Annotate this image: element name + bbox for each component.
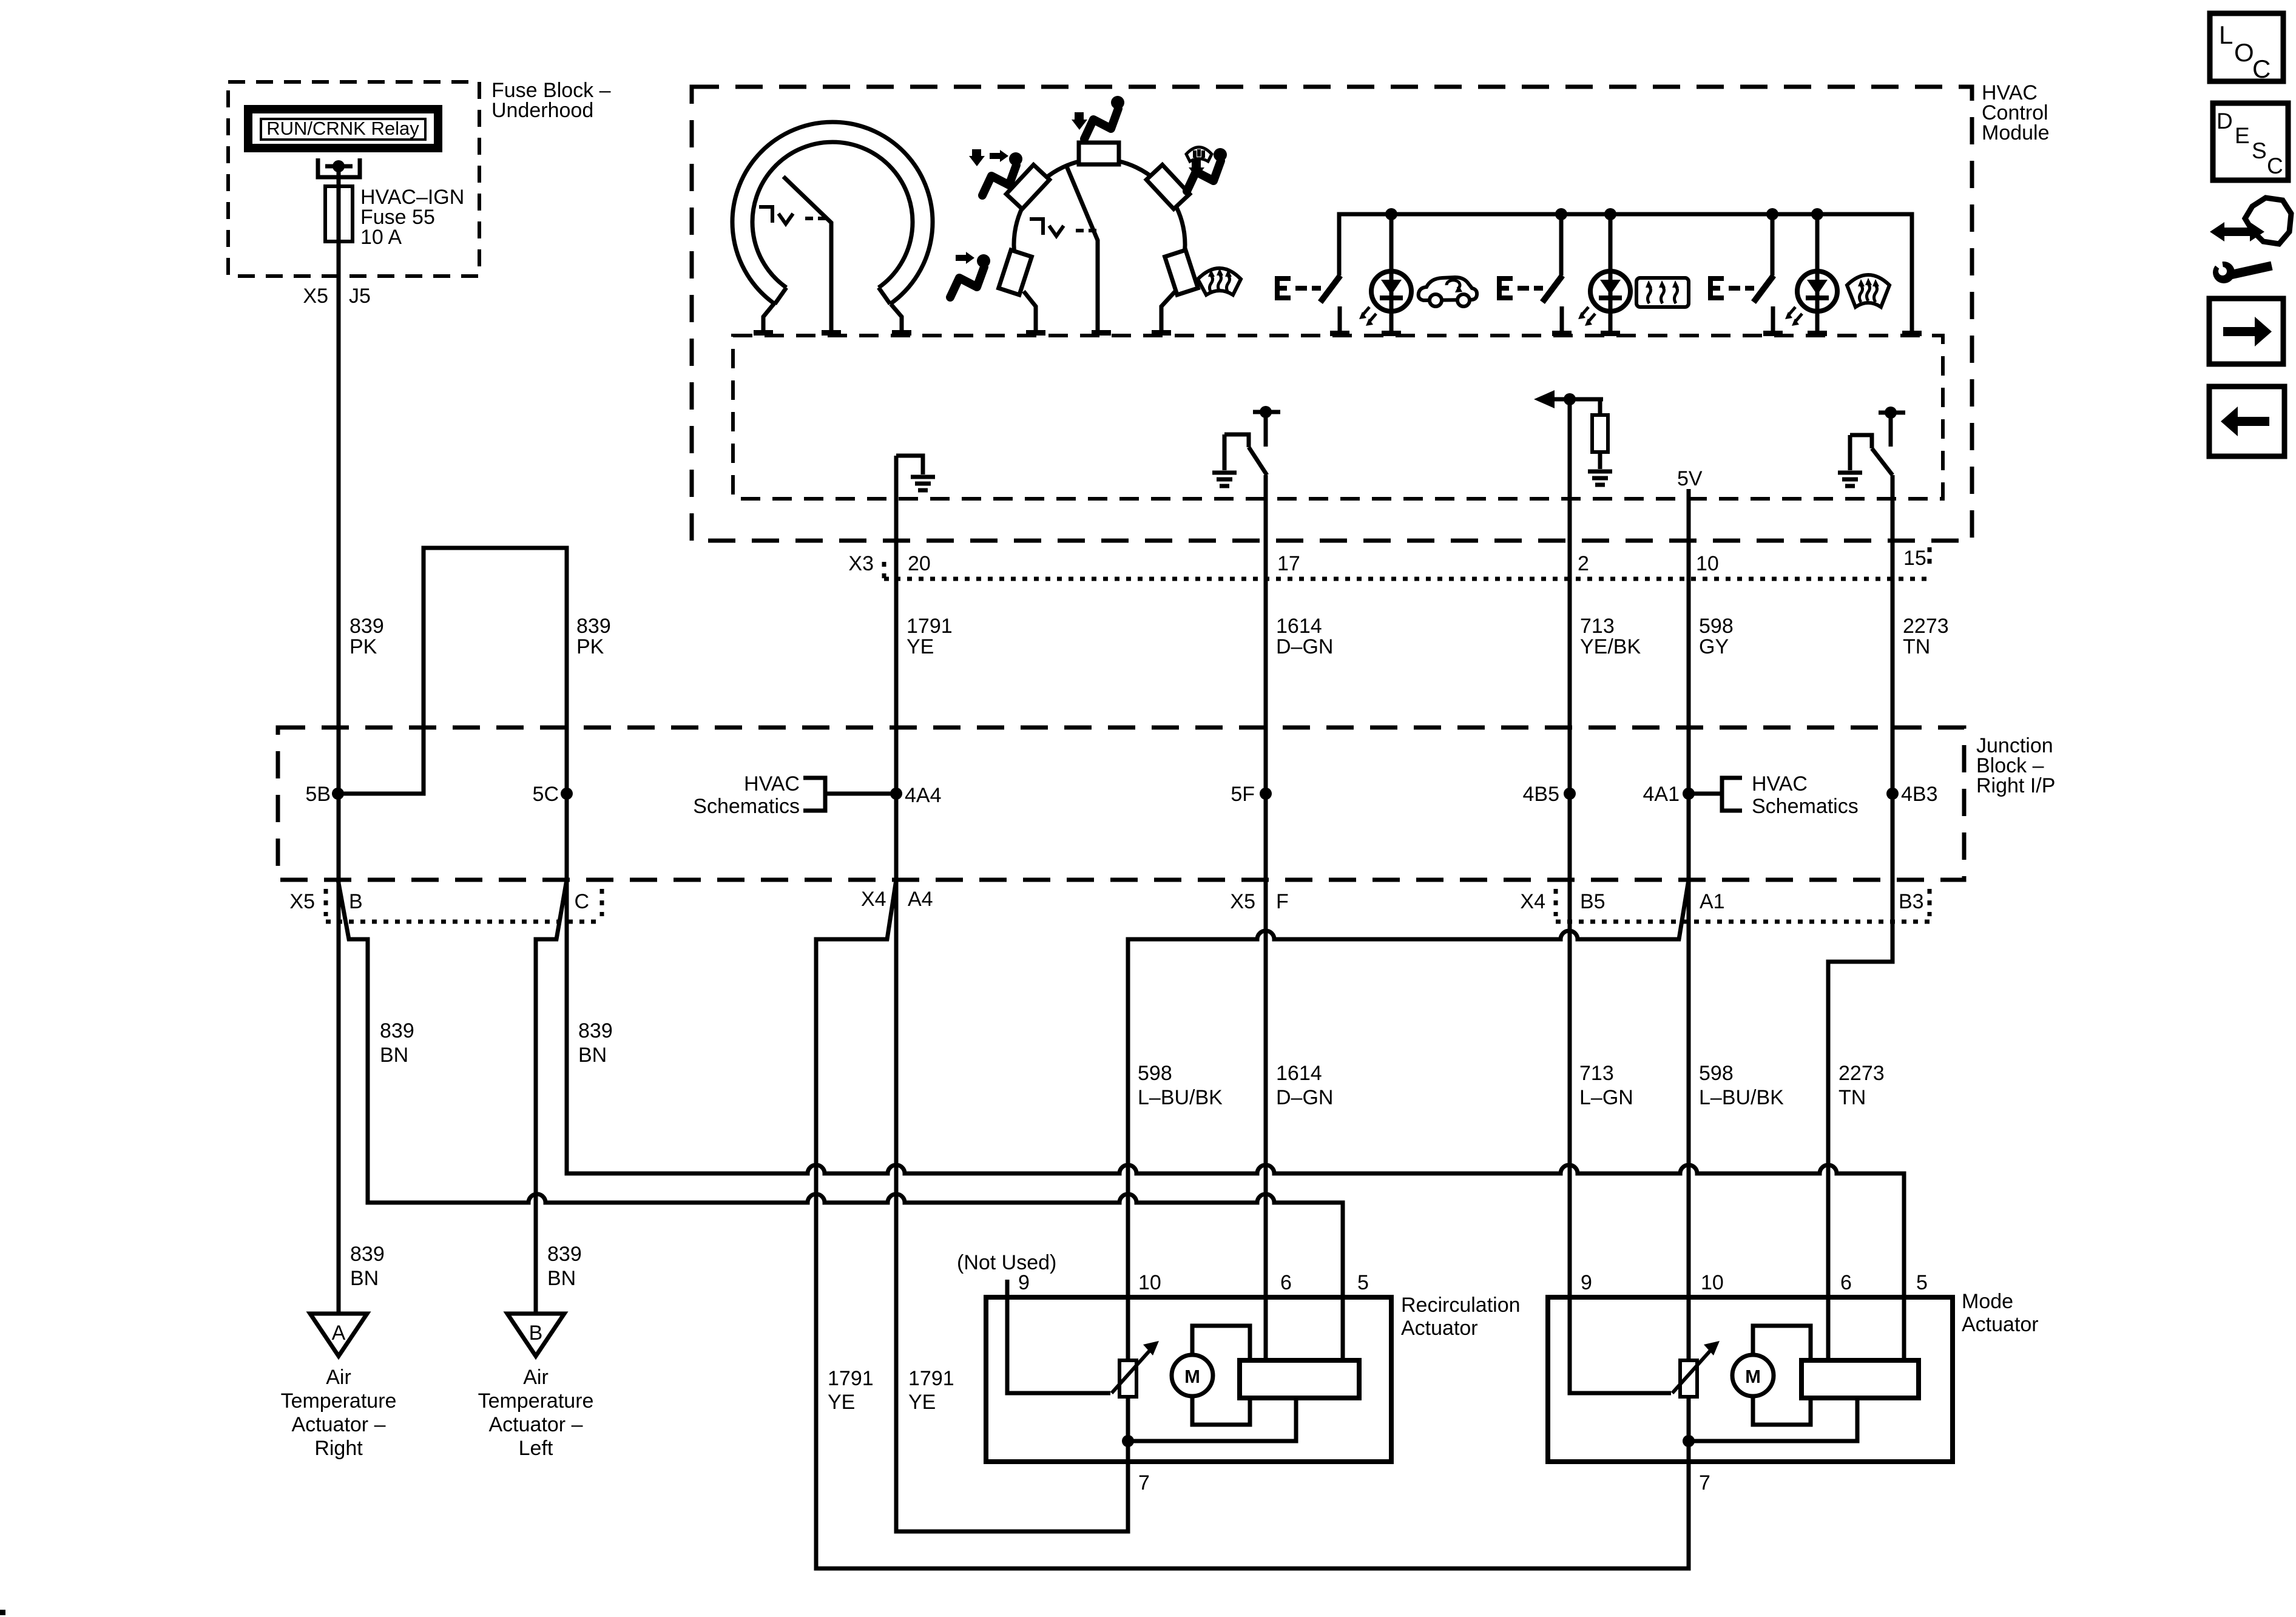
svg-text:839: 839 xyxy=(578,1019,613,1042)
svg-text:YE: YE xyxy=(828,1391,855,1414)
wire fuse feed (runs from relay dot down to Air Temp Actuator A) xyxy=(337,166,341,1314)
fuse F55 HVAC-IGN 10A xyxy=(325,186,353,241)
switch S3 front defog button xyxy=(1708,214,1783,336)
svg-text:Schematics: Schematics xyxy=(693,795,800,818)
svg-text:M: M xyxy=(1745,1366,1761,1387)
svg-text:F: F xyxy=(1276,890,1289,913)
temp knob left leg xyxy=(763,303,774,330)
svg-text:YE: YE xyxy=(908,1391,936,1414)
svg-text:BN: BN xyxy=(547,1267,576,1290)
LED D3 front defog indicator xyxy=(1785,214,1837,336)
svg-text:10: 10 xyxy=(1696,552,1719,575)
svg-text:X5: X5 xyxy=(303,285,328,308)
ground (pin 2 resistor) xyxy=(1588,471,1612,485)
svg-text:YE/BK: YE/BK xyxy=(1580,635,1641,658)
mode detent rect upper-right xyxy=(1146,165,1189,209)
svg-text:839: 839 xyxy=(576,615,611,638)
svg-text:X5: X5 xyxy=(289,890,315,913)
LED D2 rear defog indicator xyxy=(1578,214,1630,336)
LED D1 recirculation indicator xyxy=(1359,214,1411,336)
junction dot switch2 xyxy=(1555,208,1567,220)
icon defrost lower-right xyxy=(1198,268,1241,295)
svg-text:YE: YE xyxy=(907,635,934,658)
svg-text:X3: X3 xyxy=(848,552,874,575)
svg-text:Actuator: Actuator xyxy=(1962,1313,2039,1336)
svg-text:1791: 1791 xyxy=(828,1367,874,1390)
next page arrow button xyxy=(2209,299,2283,364)
relay output T-bar xyxy=(325,164,353,169)
wire 839 BN jog from C to mode pin 5 feed xyxy=(567,880,1904,1360)
svg-text:598: 598 xyxy=(1699,1062,1734,1085)
node 4A1 xyxy=(1683,788,1695,800)
switch S1 recirculation button xyxy=(1275,275,1349,336)
svg-text:Temperature: Temperature xyxy=(478,1389,594,1413)
svg-text:713: 713 xyxy=(1579,1062,1614,1085)
connector dotted lines xyxy=(326,920,602,924)
svg-text:C: C xyxy=(574,890,589,913)
svg-text:Air: Air xyxy=(523,1366,549,1389)
previous page arrow button xyxy=(2209,387,2284,456)
svg-text:5C: 5C xyxy=(533,783,559,806)
svg-text:20: 20 xyxy=(908,552,931,575)
wire 598 L-BU/BK from A1 to recirculation pin 10 xyxy=(1128,880,1689,1360)
temp knob wiper contact glyph xyxy=(759,207,826,224)
svg-text:B3: B3 xyxy=(1899,890,1924,913)
motor M recirculation xyxy=(1192,1326,1250,1425)
svg-text:BN: BN xyxy=(380,1044,408,1067)
junction dot relay output xyxy=(333,160,345,172)
node 4B3 xyxy=(1886,788,1899,800)
connector X3 dotted line xyxy=(884,577,1930,581)
icon person lower-left (vent) xyxy=(950,252,990,297)
svg-text:4B5: 4B5 xyxy=(1523,783,1560,806)
svg-text:A4: A4 xyxy=(908,888,933,911)
wire pin 2 to mode pin 9 (713) xyxy=(1570,399,1671,1393)
svg-text:598: 598 xyxy=(1138,1062,1172,1085)
svg-text:Underhood: Underhood xyxy=(491,99,593,122)
mode selector arc xyxy=(1014,159,1185,271)
svg-text:L–BU/BK: L–BU/BK xyxy=(1138,1086,1223,1109)
temp knob wiper diagonal and middle leg xyxy=(783,177,831,330)
svg-text:TN: TN xyxy=(1903,635,1930,658)
svg-text:10: 10 xyxy=(1138,1271,1161,1294)
svg-text:D: D xyxy=(2217,109,2233,133)
svg-text:O: O xyxy=(2234,38,2254,67)
relay output cup xyxy=(318,158,360,177)
junction dot LED1 xyxy=(1385,208,1397,220)
junction dot LED3 xyxy=(1811,208,1823,220)
motor M mode xyxy=(1753,1326,1811,1425)
wire pin 17 to recirculation pin 6 (1614 D-GN) xyxy=(1264,475,1268,1360)
svg-text:X4: X4 xyxy=(1520,890,1545,913)
svg-text:5F: 5F xyxy=(1231,783,1255,806)
svg-text:X5: X5 xyxy=(1230,890,1255,913)
svg-text:HVAC: HVAC xyxy=(744,772,800,795)
svg-text:RUN/CRNK Relay: RUN/CRNK Relay xyxy=(266,118,419,139)
svg-text:1614: 1614 xyxy=(1276,615,1322,638)
wire 839 BN jog from B to recirculation pin 5 feed xyxy=(338,880,1343,1360)
svg-text:L–BU/BK: L–BU/BK xyxy=(1699,1086,1784,1109)
svg-text:839: 839 xyxy=(380,1019,414,1042)
temp knob arc end chamfers xyxy=(775,288,890,304)
mode selector wiper diagonal and middle leg xyxy=(1066,165,1098,330)
svg-text:839: 839 xyxy=(350,1243,385,1266)
svg-text:BN: BN xyxy=(350,1267,379,1290)
svg-text:1791: 1791 xyxy=(907,615,953,638)
temp knob right leg xyxy=(891,304,902,330)
ground (pin 20 return) xyxy=(911,477,935,490)
svg-text:Mode: Mode xyxy=(1962,1290,2013,1313)
svg-text:TN: TN xyxy=(1838,1086,1866,1109)
svg-text:598: 598 xyxy=(1699,615,1734,638)
icon windshield defrost xyxy=(1847,275,1889,307)
svg-text:B: B xyxy=(529,1322,543,1345)
pin 20 wiper feed wire (1791 YE) with internal ground xyxy=(896,456,1128,1531)
svg-text:Right I/P: Right I/P xyxy=(1976,774,2055,797)
svg-text:5: 5 xyxy=(1357,1271,1369,1294)
temp knob outer arc xyxy=(732,122,933,304)
mode selector left leg xyxy=(1024,291,1036,330)
svg-text:M: M xyxy=(1184,1366,1200,1387)
icon person upper-left (bi-level) xyxy=(969,149,1022,195)
switch S2 rear defog button xyxy=(1497,214,1572,336)
ground (pin 17 switch) xyxy=(1212,473,1237,486)
LOC button xyxy=(2210,13,2283,83)
svg-text:D–GN: D–GN xyxy=(1276,1086,1333,1109)
icon person upper-right (blend defrost) xyxy=(1186,147,1227,192)
svg-text:Schematics: Schematics xyxy=(1752,795,1859,818)
junction dot LED2 xyxy=(1604,208,1616,220)
connector tool icon xyxy=(2207,198,2291,283)
svg-text:Recirculation: Recirculation xyxy=(1401,1294,1521,1317)
svg-text:B: B xyxy=(349,890,363,913)
svg-text:C: C xyxy=(2252,55,2271,83)
svg-text:A1: A1 xyxy=(1700,890,1725,913)
wire pin 15 to mode pin 6 (2273 TN) xyxy=(1828,475,1893,1360)
resistor R (pin 2 pull) xyxy=(1592,415,1608,452)
HVAC control module outer dashed box xyxy=(692,87,1972,541)
svg-text:S: S xyxy=(2252,138,2267,163)
svg-text:2273: 2273 xyxy=(1838,1062,1885,1085)
mode detent rect lower-right xyxy=(1165,250,1198,295)
pin 9 stub and wiper return (not used) xyxy=(1007,1280,1110,1393)
svg-text:PK: PK xyxy=(576,635,604,658)
fuse block dashed box xyxy=(228,82,479,276)
svg-text:2: 2 xyxy=(1578,552,1589,575)
ground (pin 15 switch) xyxy=(1838,473,1862,486)
svg-text:J5: J5 xyxy=(349,285,371,308)
svg-text:E: E xyxy=(2235,123,2250,148)
svg-text:4B3: 4B3 xyxy=(1901,783,1938,806)
connector block recirculation xyxy=(1240,1360,1359,1398)
svg-text:7: 7 xyxy=(1138,1471,1150,1494)
svg-text:6: 6 xyxy=(1280,1271,1292,1294)
mode detent rect lower-left xyxy=(999,250,1032,295)
svg-text:L: L xyxy=(2219,21,2233,49)
svg-text:5: 5 xyxy=(1916,1271,1928,1294)
node 4B5 xyxy=(1564,788,1576,800)
connector block mode xyxy=(1801,1360,1919,1398)
recirculation actuator box xyxy=(986,1297,1391,1462)
junction dot switch3 xyxy=(1766,208,1778,220)
svg-text:10: 10 xyxy=(1701,1271,1724,1294)
temp knob inner arc xyxy=(752,142,913,288)
svg-text:1791: 1791 xyxy=(908,1367,954,1390)
potentiometer mode xyxy=(1680,1360,1697,1397)
svg-text:Actuator: Actuator xyxy=(1401,1317,1478,1340)
svg-text:HVAC: HVAC xyxy=(1752,772,1808,795)
wire pin 10 5V to mode pin 10 (598) xyxy=(1687,489,1691,1360)
wire 1791 YE jog from A4 to mode pin 7 xyxy=(816,880,1689,1568)
svg-text:Right: Right xyxy=(314,1437,363,1460)
module inner dashed box xyxy=(733,336,1943,499)
mode actuator box xyxy=(1548,1297,1953,1462)
svg-text:5V: 5V xyxy=(1677,467,1703,490)
actuator A triangle (Air Temperature Actuator - Right) xyxy=(310,1314,367,1356)
icon car recirculation xyxy=(1419,277,1477,306)
svg-text:7: 7 xyxy=(1699,1471,1710,1494)
actuator B triangle (Air Temperature Actuator - Left) xyxy=(507,1314,564,1356)
svg-text:839: 839 xyxy=(349,615,384,638)
svg-text:X4: X4 xyxy=(861,888,886,911)
node 5B xyxy=(332,788,344,800)
mode detent rect top xyxy=(1079,143,1119,164)
junction dot pin 7 mode xyxy=(1683,1435,1695,1447)
page mark bottom-left xyxy=(0,1610,5,1615)
switch to ground pin 15 xyxy=(1850,407,1905,475)
wire through pot xyxy=(1126,1297,1130,1441)
svg-text:2273: 2273 xyxy=(1903,615,1949,638)
switch to ground pin 17 xyxy=(1224,406,1280,475)
svg-text:Actuator –: Actuator – xyxy=(292,1413,386,1436)
svg-text:5B: 5B xyxy=(305,783,331,806)
node 5F xyxy=(1260,788,1272,800)
svg-text:Air: Air xyxy=(326,1366,351,1389)
svg-text:B5: B5 xyxy=(1580,890,1606,913)
svg-text:6: 6 xyxy=(1840,1271,1852,1294)
potentiometer recirculation xyxy=(1119,1360,1136,1397)
svg-text:4A1: 4A1 xyxy=(1643,783,1680,806)
icon rear defog grid xyxy=(1636,278,1689,307)
svg-text:Actuator –: Actuator – xyxy=(489,1413,583,1436)
relay K RUN/CRNK Relay box xyxy=(248,109,438,148)
node 5C xyxy=(561,788,573,800)
icon person top (vent to panel) xyxy=(1072,96,1124,139)
svg-text:9: 9 xyxy=(1581,1271,1592,1294)
junction block dashed box xyxy=(278,727,1964,880)
mode detent rect upper-left xyxy=(1006,165,1049,209)
svg-text:10 A: 10 A xyxy=(360,226,402,249)
svg-text:839: 839 xyxy=(547,1243,582,1266)
node 4A4 xyxy=(890,788,902,800)
pin 2 sense with pull resistor xyxy=(1534,390,1608,469)
svg-text:(Not Used): (Not Used) xyxy=(957,1251,1056,1274)
svg-text:BN: BN xyxy=(578,1044,607,1067)
svg-text:17: 17 xyxy=(1277,552,1300,575)
DESC button xyxy=(2213,103,2288,180)
wire through pot mode xyxy=(1687,1397,1691,1441)
mode selector right leg xyxy=(1161,291,1175,330)
svg-text:9: 9 xyxy=(1018,1271,1030,1294)
svg-text:D–GN: D–GN xyxy=(1276,635,1333,658)
svg-text:15: 15 xyxy=(1903,547,1926,570)
wire 839 BN jog from C to Air Temp Actuator B xyxy=(536,880,567,1314)
svg-text:GY: GY xyxy=(1699,635,1729,658)
svg-text:A: A xyxy=(332,1322,346,1345)
junction dot pin 7 recirculation xyxy=(1122,1435,1134,1447)
svg-text:Module: Module xyxy=(1982,121,2050,144)
svg-text:L–GN: L–GN xyxy=(1579,1086,1633,1109)
svg-text:Left: Left xyxy=(519,1437,553,1460)
svg-text:1614: 1614 xyxy=(1276,1062,1322,1085)
svg-text:713: 713 xyxy=(1580,615,1615,638)
wire 5B to 5C link xyxy=(338,548,567,880)
bus wire for LED groups xyxy=(1339,214,1912,331)
svg-text:Temperature: Temperature xyxy=(281,1389,397,1413)
mode wiper contact glyph xyxy=(1030,219,1096,236)
svg-text:PK: PK xyxy=(349,635,377,658)
HVAC Schematics bracket right xyxy=(1694,778,1742,811)
svg-text:C: C xyxy=(2267,154,2283,178)
svg-text:4A4: 4A4 xyxy=(905,784,942,807)
